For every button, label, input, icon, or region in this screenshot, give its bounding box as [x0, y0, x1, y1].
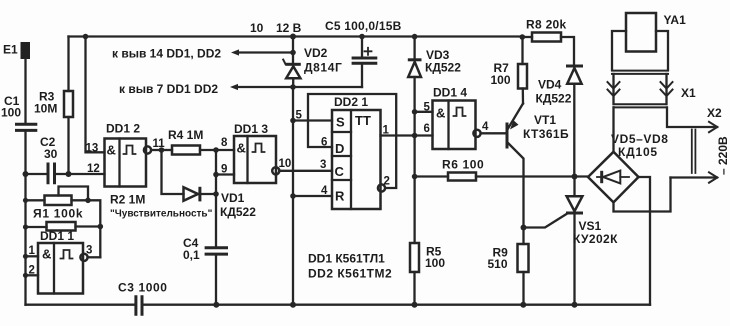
svg-text:YA1: YA1	[664, 13, 687, 27]
svg-text:DD1 4: DD1 4	[433, 86, 467, 100]
svg-text:E1: E1	[3, 43, 18, 57]
electrode E1	[3, 42, 30, 59]
node VT1 collector junction	[521, 225, 527, 231]
resistor R5 100	[410, 243, 445, 305]
label DD1 chip type	[308, 252, 385, 266]
node R1 left junction	[23, 224, 28, 229]
svg-text:4: 4	[321, 185, 328, 197]
svg-text:&: &	[107, 143, 116, 158]
svg-text:– 220В: – 220В	[716, 136, 730, 175]
svg-text:1: 1	[383, 125, 390, 137]
svg-text:100: 100	[1, 106, 21, 120]
svg-text:1: 1	[29, 245, 36, 257]
svg-text:S: S	[336, 115, 345, 130]
zener VD2 D814G	[283, 37, 342, 88]
wire bridge bottom to X2 lower	[614, 178, 671, 212]
resistor R9 510	[488, 228, 529, 305]
wire DD1.3 pin 10 output to DD2.1 C pin 3	[279, 158, 333, 171]
resistor R6 100	[415, 158, 575, 181]
wire DD1.4 pin 4 output	[481, 121, 506, 133]
wire DD1.1 pin1	[26, 245, 39, 257]
svg-text:R: R	[335, 189, 345, 204]
capacitor C2 30	[26, 135, 58, 184]
svg-text:6: 6	[424, 123, 430, 135]
wire bridge top to YA1	[612, 107, 614, 152]
svg-text:12: 12	[87, 163, 100, 175]
node VS1 anode junction	[572, 174, 578, 180]
svg-text:2: 2	[29, 265, 35, 277]
svg-text:9: 9	[221, 164, 227, 176]
wire to pins 7 ground arrow	[119, 82, 362, 96]
capacitor C1 100	[1, 94, 37, 130]
svg-text:DD2 К561ТМ2: DD2 К561ТМ2	[308, 267, 392, 281]
svg-text:КД522: КД522	[536, 92, 572, 106]
wire DD1.4 pin 5	[415, 102, 433, 114]
svg-text:C: C	[335, 164, 345, 179]
wire bottom ground rail left	[26, 304, 135, 306]
wire DD1.1 pin2	[26, 265, 39, 277]
wire C2 to DD1.2 pin 12	[56, 173, 105, 175]
wire DD1.1 pin3 output	[86, 245, 100, 258]
svg-text:к выв 14 DD1, DD2: к выв 14 DD1, DD2	[112, 47, 221, 61]
wire sensor node vertical bus	[24, 174, 26, 305]
gate DD1.3 (K561TL1 NAND Schmitt trigger)	[234, 122, 279, 183]
svg-text:DD1 1: DD1 1	[40, 229, 74, 243]
diode VD4 KD522	[536, 66, 584, 177]
label 220V mains	[716, 136, 730, 175]
svg-text:&: &	[42, 247, 51, 262]
diode VD1 KD522	[162, 150, 257, 219]
wire DD2.1 pin 5 S	[293, 110, 332, 122]
wire DD1.2 pin 11 output	[151, 138, 165, 150]
svg-text:8: 8	[221, 137, 228, 149]
wire node8 vertical	[215, 150, 217, 246]
svg-text:&: &	[436, 106, 445, 121]
wire bottom ground rail right	[144, 304, 651, 306]
svg-text:12 В: 12 В	[276, 21, 302, 35]
wire C1 to node	[24, 132, 26, 174]
svg-text:13: 13	[86, 143, 99, 155]
svg-text:TT: TT	[355, 113, 371, 128]
svg-text:КД522: КД522	[220, 205, 256, 219]
node DD2.1 S pin junction	[290, 118, 296, 124]
node ground rail junction dots	[213, 302, 577, 308]
wire DD2.1 pin 1 Q output	[381, 125, 433, 137]
svg-text:DD1 3: DD1 3	[234, 122, 268, 136]
node DD1.1 pin2 junction	[23, 273, 28, 278]
svg-text:4: 4	[482, 121, 489, 133]
resistor R3 10M	[34, 37, 73, 175]
node VD2 cathode junction	[290, 50, 296, 56]
connector X1 strip	[614, 104, 667, 107]
svg-text:Я1 100k: Я1 100k	[33, 207, 83, 221]
node R2 wiper junction	[85, 198, 91, 204]
svg-text:510: 510	[488, 257, 508, 271]
label pin 13	[86, 143, 99, 155]
svg-text:R8 20k: R8 20k	[526, 18, 567, 32]
flip-flop DD2.1	[332, 95, 381, 209]
node sensor junction	[23, 171, 29, 177]
svg-text:VS1: VS1	[579, 219, 602, 233]
label pin 3 C	[320, 159, 326, 171]
wire X2 upper lead with arrow	[667, 107, 717, 132]
wire ground bus vertical x293	[292, 87, 294, 305]
transistor VT1 KT361B	[507, 104, 569, 228]
wire node Q vertical bus	[413, 112, 415, 243]
resistor R4 1M	[162, 128, 235, 155]
svg-text:3: 3	[320, 159, 326, 171]
wire to pins 14 supply arrow	[112, 47, 293, 61]
svg-text:VD2: VD2	[304, 46, 328, 60]
node 12V junction dots on rail	[83, 34, 525, 40]
svg-text:КТ361Б: КТ361Б	[523, 127, 569, 141]
svg-text:X2: X2	[707, 106, 722, 120]
svg-text:&: &	[237, 141, 246, 156]
label pin 6 D	[321, 137, 327, 149]
capacitor C4 0.1	[183, 236, 228, 305]
wire YA1 left lead	[612, 74, 614, 104]
resistor R7 100	[491, 37, 528, 104]
svg-text:10: 10	[279, 158, 292, 170]
wire X2 lower lead with arrow	[671, 106, 723, 183]
wire R2 to feedback bus	[88, 200, 100, 257]
node R1 right junction	[98, 224, 104, 230]
svg-text:0,1: 0,1	[183, 248, 200, 262]
node R6 junction	[412, 174, 418, 180]
svg-text:100: 100	[491, 73, 511, 87]
svg-text:"Чувствительность": "Чувствительность"	[110, 209, 213, 220]
node DD1.4 pin5 junction	[412, 109, 418, 115]
svg-text:DD1 2: DD1 2	[106, 122, 140, 136]
svg-text:C5 100,0/15В: C5 100,0/15В	[325, 19, 402, 33]
resistor R1 100k	[26, 207, 101, 231]
svg-text:к выв 7 DD1 DD2: к выв 7 DD1 DD2	[119, 82, 218, 96]
svg-text:VD4: VD4	[538, 78, 562, 92]
wire DD1.3 pin 9	[216, 164, 234, 176]
svg-text:5: 5	[424, 102, 431, 114]
svg-text:DD2 1: DD2 1	[334, 95, 368, 109]
svg-text:10: 10	[250, 21, 264, 35]
connector X1	[608, 82, 697, 100]
node pin9 junction	[213, 172, 219, 178]
label 10 12V supply	[250, 21, 302, 35]
wire top +12V rail	[69, 35, 523, 37]
node VD2 anode junction	[290, 84, 296, 90]
svg-text:C3 1000: C3 1000	[118, 281, 168, 295]
svg-text:D: D	[335, 141, 344, 156]
label pin 8	[221, 137, 228, 149]
svg-text:VT1: VT1	[534, 113, 556, 127]
wire bridge left to VS1 anode	[575, 175, 589, 177]
label pin 12	[87, 163, 100, 175]
svg-text:VD5–VD8: VD5–VD8	[611, 132, 669, 146]
wire rail to DD1.2 pin 13	[86, 37, 105, 153]
svg-text:VD1: VD1	[221, 191, 245, 205]
node R4 right junction	[213, 147, 219, 153]
label pin 6	[424, 123, 430, 135]
svg-text:100: 100	[425, 256, 445, 270]
svg-text:5: 5	[296, 110, 303, 122]
gate DD1.2 (K561TL1 NAND Schmitt trigger)	[105, 122, 152, 187]
resistor R2 1M sensitivity pot	[26, 187, 213, 220]
svg-text:КД105: КД105	[618, 145, 658, 159]
resistor R8 20k	[522, 18, 574, 65]
diode VD3 KD522	[408, 37, 461, 113]
wire bridge right to ground rail	[639, 177, 651, 305]
node 11 junction	[159, 147, 165, 153]
svg-text:КУ202К: КУ202К	[573, 232, 618, 246]
svg-text:КД522: КД522	[425, 61, 461, 75]
svg-text:R6 100: R6 100	[442, 158, 484, 172]
connector X2 mating lines	[692, 130, 696, 174]
gate DD1.4 (K561TL1 NAND Schmitt trigger)	[433, 86, 481, 150]
wire DD2.1 pin 2 Qbar feedback to D pin 6	[308, 94, 396, 192]
svg-text:3: 3	[86, 245, 92, 257]
capacitor C5 100.0/15V	[325, 19, 402, 87]
wire E1 to C1	[24, 59, 26, 123]
solenoid YA1	[612, 13, 686, 74]
bridge rectifier VD5-VD8 KD105	[588, 132, 669, 202]
wire DD2.1 pin 4 R	[293, 185, 332, 197]
node R2 left junction	[23, 198, 28, 203]
svg-text:30: 30	[44, 147, 58, 161]
node Q junction	[412, 133, 418, 139]
svg-text:Д814Г: Д814Г	[304, 61, 342, 75]
node DD1.1 pin1 junction	[23, 254, 28, 259]
gate DD1.1 (K561TL1 NAND Schmitt trigger)	[38, 229, 88, 294]
svg-text:R2 1M: R2 1M	[110, 193, 145, 207]
svg-text:R4 1M: R4 1M	[168, 128, 203, 142]
node VD1 cathode junction	[213, 191, 219, 197]
wire YA1 right lead	[665, 74, 667, 104]
svg-text:DD1 К561ТЛ1: DD1 К561ТЛ1	[308, 252, 385, 266]
capacitor C3 1000	[118, 281, 168, 316]
svg-text:10M: 10M	[34, 102, 57, 116]
label DD2 chip type	[308, 267, 392, 281]
node DD2.1 R pin junction	[290, 193, 296, 199]
thyristor VS1 KU202K	[524, 177, 619, 305]
svg-text:2: 2	[384, 176, 390, 188]
svg-text:X1: X1	[681, 86, 696, 100]
node R3 bottom junction	[66, 171, 72, 177]
